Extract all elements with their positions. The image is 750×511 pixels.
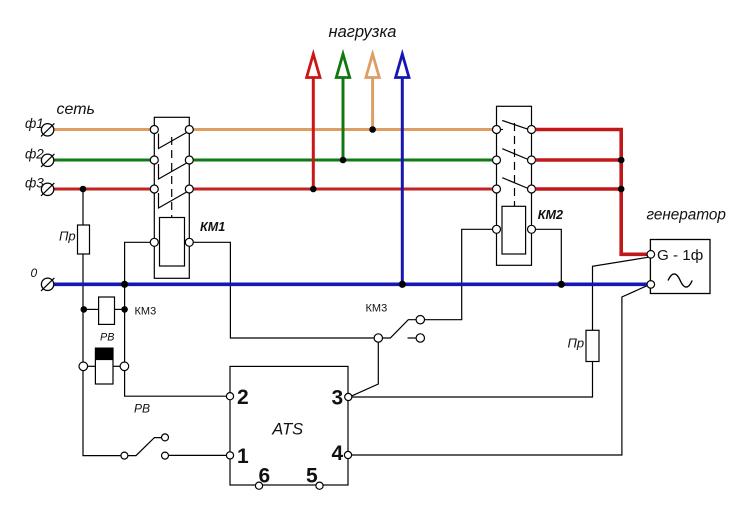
ATS terminal circle pin5 xyxy=(316,482,323,489)
terminal circle KM3 common xyxy=(374,334,382,342)
time relay RV body xyxy=(95,348,113,384)
junction dot L3 fuse xyxy=(80,186,87,193)
svg-text:РВ: РВ xyxy=(134,402,150,416)
KM2 contact circle L3 left xyxy=(493,185,501,193)
svg-text:ф3: ф3 xyxy=(25,176,44,191)
terminal circle RV left xyxy=(79,362,88,371)
load arrow orange stem xyxy=(371,77,374,130)
junction dot generator L3 xyxy=(618,186,625,193)
junction dot KM3 coil left xyxy=(81,306,88,313)
ATS terminal circle pin4 xyxy=(344,451,351,458)
terminal circle S1 upper xyxy=(162,434,169,441)
wire phase L2 green segment left xyxy=(54,159,151,162)
svg-text:Пр: Пр xyxy=(59,229,76,244)
svg-text:нагрузка: нагрузка xyxy=(329,23,397,41)
terminal circle S1 lower xyxy=(162,452,169,459)
svg-text:4: 4 xyxy=(332,442,344,465)
junction dot green arrow on L2 xyxy=(340,157,347,164)
KM1 contact circle L1 left xyxy=(150,126,158,134)
svg-text:0: 0 xyxy=(31,266,38,280)
wire phase L2 green segment middle xyxy=(193,159,493,162)
fuse Pr2 body xyxy=(586,330,599,361)
relay coil KM3 xyxy=(99,297,115,324)
KM1 contact circle L3 left xyxy=(150,185,158,193)
wire KM1 coil right terminal down to KM3 contact common xyxy=(193,242,374,338)
KM1 pole 1 blade xyxy=(159,132,188,149)
load arrow red stem xyxy=(312,77,315,190)
switch KM3 lower throw stub xyxy=(408,337,417,339)
junction dot blue arrow on neutral xyxy=(399,281,406,288)
KM1 contact circle L3 right xyxy=(185,185,193,193)
KM1 coil terminal left xyxy=(150,238,158,246)
wire ATS pin4 to generator lower terminal xyxy=(352,286,648,455)
KM1 contact circle L2 right xyxy=(185,156,193,164)
mains terminal f1 xyxy=(41,123,54,136)
generator terminal lower xyxy=(647,281,655,289)
wire KM3 coil left stub xyxy=(83,308,99,310)
svg-text:ф1: ф1 xyxy=(25,116,44,131)
svg-text:1: 1 xyxy=(237,445,249,468)
KM1 coil terminal right xyxy=(185,238,193,246)
svg-text:сеть: сеть xyxy=(57,101,95,118)
wire KM3 coil right stub xyxy=(115,308,125,310)
wire generator red L2 xyxy=(536,158,622,162)
KM2 contact circle L1 right xyxy=(528,126,536,134)
svg-text:КМ3: КМ3 xyxy=(135,306,157,318)
load arrow orange head xyxy=(366,54,379,78)
svg-text:РВ: РВ xyxy=(100,332,114,344)
contactor KM1 outline box xyxy=(154,117,189,278)
generator sine symbol xyxy=(668,274,692,287)
KM2 contact circle L2 right xyxy=(528,156,536,164)
terminal circle S1 common xyxy=(121,452,128,459)
wire ATS pin3 to fuse Pr2 xyxy=(352,362,593,398)
neutral terminal 0 xyxy=(41,278,54,291)
mains terminal f3 xyxy=(41,183,54,196)
wire RV left stub xyxy=(88,365,96,367)
KM2 coil terminal right xyxy=(528,225,536,233)
generator box G xyxy=(650,240,710,294)
time relay RV filled top xyxy=(95,348,113,360)
svg-text:6: 6 xyxy=(259,465,271,488)
wire KM3 common down to ATS pin3 xyxy=(352,342,378,396)
svg-text:КМ3: КМ3 xyxy=(366,303,388,315)
KM1 linkage dashed xyxy=(171,137,173,218)
svg-text:генератор: генератор xyxy=(647,207,727,224)
wire KM2 coil left to KM3 contact upper throw xyxy=(425,229,494,319)
KM1 pole 2 blade xyxy=(159,163,188,180)
svg-text:ATS: ATS xyxy=(271,420,303,438)
KM2 coil xyxy=(502,206,526,254)
switch S1 bottom blade xyxy=(128,438,162,456)
wire generator red L1 xyxy=(536,130,648,255)
wire generator red L3 xyxy=(536,187,622,191)
wire phase L1 orange segment left xyxy=(54,128,151,131)
wire phase L3 red segment middle xyxy=(193,188,493,191)
load arrow blue head xyxy=(396,54,409,78)
wire RV right stub xyxy=(113,365,120,367)
ATS terminal circle pin3 xyxy=(345,393,352,400)
svg-text:3: 3 xyxy=(332,387,344,410)
svg-text:G - 1ф: G - 1ф xyxy=(657,247,703,264)
wire neutral blue xyxy=(54,282,647,286)
wire phase L1 orange segment middle xyxy=(193,128,493,131)
svg-text:5: 5 xyxy=(306,465,318,488)
terminal circle RV right xyxy=(120,362,129,371)
KM2 coil terminal left xyxy=(493,225,501,233)
ATS terminal circle pin2 xyxy=(226,393,233,400)
terminal circle KM3 upper throw xyxy=(416,316,424,324)
KM2 pole 2 blade xyxy=(502,149,528,160)
generator terminal upper xyxy=(647,251,655,259)
svg-text:КМ1: КМ1 xyxy=(200,220,225,234)
ATS terminal circle pin6 xyxy=(255,482,262,489)
wire fuse Pr1 to KM3 coil and RV and bottom switch xyxy=(83,254,121,456)
KM1 pole 3 blade xyxy=(159,192,188,209)
terminal circle KM3 lower throw xyxy=(416,334,424,342)
KM1 coil xyxy=(160,218,185,267)
wire KM1 coil left terminal to neutral and down to ATS pin2 xyxy=(125,242,227,396)
KM2 pole 3 blade xyxy=(502,178,528,189)
ATS controller box xyxy=(230,366,348,485)
fuse Pr1 wire from L3 down xyxy=(82,189,84,225)
KM2 linkage dashed xyxy=(514,123,516,206)
wire switch S1 to ATS pin1 xyxy=(169,454,227,456)
svg-text:Пр: Пр xyxy=(568,336,585,351)
wire phase L3 red segment left xyxy=(54,188,151,191)
KM2 contact circle L2 left xyxy=(493,156,501,164)
svg-text:ф2: ф2 xyxy=(25,147,44,162)
fuse Pr1 body xyxy=(78,225,90,254)
junction dot red arrow on L3 xyxy=(310,186,317,193)
junction dot KM3 coil right xyxy=(121,306,128,313)
load arrow red head xyxy=(307,54,320,78)
svg-text:КМ2: КМ2 xyxy=(538,208,563,222)
load arrow green head xyxy=(336,54,349,78)
contactor KM2 outline box xyxy=(497,106,532,265)
wire fuse Pr2 to generator upper terminal xyxy=(593,257,649,330)
KM1 contact circle L1 right xyxy=(185,126,193,134)
switch KM3 changeover contact: blade xyxy=(383,320,417,338)
mains terminal f2 xyxy=(41,154,54,167)
junction dot KM1 coil on neutral xyxy=(121,281,128,288)
KM2 contact circle L1 left xyxy=(493,126,501,134)
KM2 pole 1 blade xyxy=(500,129,503,131)
junction dot KM2 coil on neutral xyxy=(558,281,565,288)
KM1 contact circle L2 left xyxy=(150,156,158,164)
load arrow blue stem xyxy=(401,77,404,285)
load arrow green stem xyxy=(342,77,345,161)
svg-text:2: 2 xyxy=(237,386,249,409)
junction dot orange arrow on L1 xyxy=(369,126,376,133)
ATS terminal circle pin1 xyxy=(226,452,233,459)
KM2 contact circle L3 right xyxy=(528,185,536,193)
junction dot generator L2 xyxy=(618,157,625,164)
wire KM2 coil right to neutral xyxy=(535,229,561,284)
